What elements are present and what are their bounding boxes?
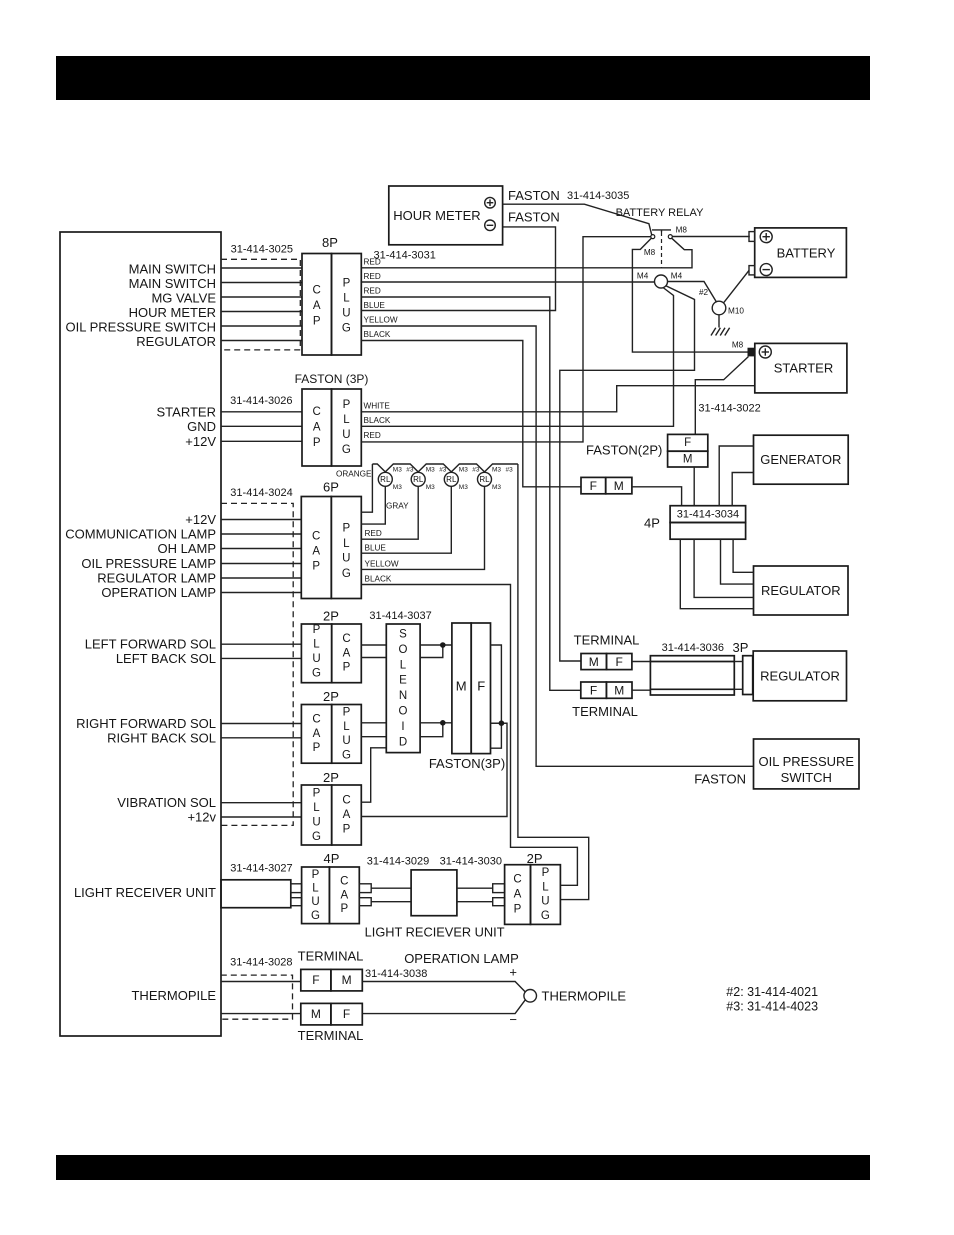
regulator box lower xyxy=(753,651,846,701)
svg-text:P: P xyxy=(313,742,321,754)
svg-text:G: G xyxy=(541,910,550,922)
wires 2P no.1 to solenoid xyxy=(361,644,386,646)
svg-text:MAIN SWITCH: MAIN SWITCH xyxy=(129,262,216,277)
svg-text:BLUE: BLUE xyxy=(364,301,386,310)
connector F M pair (from 8P black) xyxy=(581,477,632,493)
svg-text:A: A xyxy=(343,647,351,659)
svg-text:L: L xyxy=(343,538,350,550)
svg-text:M3: M3 xyxy=(492,467,501,474)
svg-text:I: I xyxy=(401,721,404,733)
wire starter M8 to faston 2P xyxy=(695,357,748,435)
svg-text:BLUE: BLUE xyxy=(365,544,387,553)
lamp RL1 xyxy=(378,472,392,486)
svg-text:M3: M3 xyxy=(393,467,402,474)
wires 4P cap to middle unit xyxy=(371,887,411,889)
svg-text:C: C xyxy=(342,633,350,645)
regulator box upper xyxy=(754,566,849,615)
svg-text:BLACK: BLACK xyxy=(364,416,391,425)
svg-text:M3: M3 xyxy=(492,484,501,491)
wires 2P no.1 left pins xyxy=(221,643,301,645)
svg-text:RL: RL xyxy=(479,475,490,484)
svg-text:LEFT FORWARD SOL: LEFT FORWARD SOL xyxy=(85,637,216,652)
svg-text:31-414-3036: 31-414-3036 xyxy=(662,642,724,654)
wire BLACK 8P to faston 2P pair xyxy=(361,341,581,487)
svg-text:#3: #3 xyxy=(406,467,414,474)
wire RED 6P to lamp RL2 xyxy=(361,487,418,540)
connector M F thermopile lower xyxy=(301,1003,363,1025)
svg-text:LIGHT RECIEVER UNIT: LIGHT RECIEVER UNIT xyxy=(365,925,505,940)
wires 2P no.2 to solenoid xyxy=(361,722,386,724)
connector F M thermopile upper xyxy=(301,969,363,991)
svg-text:31-414-3034: 31-414-3034 xyxy=(677,508,739,520)
svg-text:BLACK: BLACK xyxy=(365,574,392,583)
svg-text:GENERATOR: GENERATOR xyxy=(760,452,841,467)
wire hour meter plus to relay contact xyxy=(503,204,652,235)
connector 2P no.1 PLUG/CAP xyxy=(301,624,361,683)
wires 3P left pins xyxy=(221,412,302,442)
svg-text:FASTON: FASTON xyxy=(508,209,560,224)
svg-text:#3: #3 xyxy=(506,467,514,474)
cap stub lower xyxy=(359,898,371,906)
svg-text:31-414-3037: 31-414-3037 xyxy=(369,610,431,622)
svg-text:BATTERY: BATTERY xyxy=(777,245,836,260)
wire GRAY 6P to lamp RL1 xyxy=(361,487,385,525)
svg-text:M3: M3 xyxy=(393,484,402,491)
wire 4P pin3 to regulator xyxy=(694,539,753,597)
lamp pin labels M3/#3 xyxy=(393,467,513,492)
svg-text:4P: 4P xyxy=(644,516,660,531)
svg-text:F: F xyxy=(684,437,691,449)
svg-text:OIL PRESSURE LAMP: OIL PRESSURE LAMP xyxy=(81,556,216,571)
svg-text:M3: M3 xyxy=(426,467,435,474)
svg-text:N: N xyxy=(399,690,407,702)
svg-text:FASTON: FASTON xyxy=(508,188,560,203)
connector M F terminal upper xyxy=(581,654,632,670)
svg-text:U: U xyxy=(342,553,350,565)
svg-text:L: L xyxy=(542,881,549,893)
svg-text:LEFT BACK SOL: LEFT BACK SOL xyxy=(116,651,216,666)
harness main box (left) xyxy=(60,232,221,1036)
svg-text:G: G xyxy=(312,667,321,679)
svg-text:REGULATOR: REGULATOR xyxy=(136,334,216,349)
wire solenoid to M/F faston upper xyxy=(420,644,452,646)
bottom footer bar xyxy=(56,1155,870,1180)
svg-text:M3: M3 xyxy=(459,484,468,491)
wire RED3 8P to lower terminal F/M xyxy=(361,297,581,690)
wire battery minus to M10 xyxy=(723,270,749,303)
wire M/F faston right pin2 xyxy=(491,722,508,724)
svg-text:31-414-3029: 31-414-3029 xyxy=(367,856,429,868)
svg-text:C: C xyxy=(340,875,348,887)
hour meter plus terminal xyxy=(485,197,496,208)
svg-text:G: G xyxy=(312,831,321,843)
svg-text:A: A xyxy=(312,546,320,558)
svg-text:OPERATION LAMP: OPERATION LAMP xyxy=(101,585,216,600)
svg-text:P: P xyxy=(312,869,320,881)
wire BLUE 8P to hour meter minus xyxy=(361,227,555,311)
svg-text:A: A xyxy=(313,728,321,740)
connector 4P (31-414-3034) xyxy=(670,506,746,540)
battery relay armature dashed xyxy=(661,232,663,268)
svg-text:GRAY: GRAY xyxy=(386,501,409,510)
svg-text:P: P xyxy=(343,706,351,718)
svg-text:HOUR METER: HOUR METER xyxy=(129,305,216,320)
svg-text:TERMINAL: TERMINAL xyxy=(298,949,364,964)
svg-text:P: P xyxy=(542,867,550,879)
svg-text:+: + xyxy=(509,965,517,980)
wire generator pin2 to 4P xyxy=(732,473,753,506)
svg-text:C: C xyxy=(513,874,521,886)
wire YELLOW 8P to oil pressure switch xyxy=(361,326,753,766)
svg-text:L: L xyxy=(343,293,350,305)
svg-text:−: − xyxy=(509,1012,517,1027)
wire thermopile minus to lamp xyxy=(362,999,525,1013)
svg-text:M: M xyxy=(311,1007,321,1021)
svg-text:G: G xyxy=(311,910,320,922)
svg-text:31-414-3026: 31-414-3026 xyxy=(230,395,292,407)
svg-text:U: U xyxy=(311,896,319,908)
wire solenoid pin2 loop xyxy=(420,645,443,658)
wire M4 branch to terminal M/F xyxy=(560,286,695,661)
svg-text:P: P xyxy=(343,399,351,411)
wire 4P pin4 to regulator xyxy=(680,539,753,609)
svg-text:F: F xyxy=(343,1007,350,1021)
svg-text:F: F xyxy=(312,973,319,987)
svg-text:M3: M3 xyxy=(459,467,468,474)
svg-text:TERMINAL: TERMINAL xyxy=(572,704,638,719)
thermopile lamp circle xyxy=(524,990,537,1003)
svg-text:M10: M10 xyxy=(728,307,744,316)
svg-text:U: U xyxy=(541,896,549,908)
top title bar xyxy=(56,56,870,100)
svg-text:M4: M4 xyxy=(637,272,649,281)
svg-text:#3: 31-414-4023: #3: 31-414-4023 xyxy=(726,999,818,1013)
wire terminal lower to 3P connector xyxy=(632,689,650,691)
svg-text:A: A xyxy=(313,300,321,312)
connector 2P no.2 CAP/PLUG xyxy=(301,705,361,764)
svg-text:C: C xyxy=(313,406,321,418)
svg-text:L: L xyxy=(343,721,350,733)
svg-text:RL: RL xyxy=(380,475,391,484)
battery plus tab xyxy=(749,232,755,242)
svg-text:YELLOW: YELLOW xyxy=(365,559,399,568)
wire 4P pin2 to regulator xyxy=(721,539,754,584)
svg-text:O: O xyxy=(399,644,408,656)
svg-text:VIBRATION SOL: VIBRATION SOL xyxy=(117,795,216,810)
svg-text:M8: M8 xyxy=(732,341,744,350)
svg-text:F: F xyxy=(616,655,623,669)
svg-text:3P: 3P xyxy=(733,640,749,655)
svg-text:G: G xyxy=(342,750,351,762)
svg-text:P: P xyxy=(312,561,320,573)
svg-text:L: L xyxy=(313,802,320,814)
svg-text:OIL PRESSURE SWITCH: OIL PRESSURE SWITCH xyxy=(66,320,216,335)
dashed harness boundary thermopile xyxy=(221,975,293,1019)
svg-text:FASTON: FASTON xyxy=(694,772,746,787)
svg-text:P: P xyxy=(342,522,350,534)
svg-text:4P: 4P xyxy=(324,851,340,866)
connector 6P CAP/PLUG xyxy=(301,497,361,599)
svg-text:RIGHT FORWARD SOL: RIGHT FORWARD SOL xyxy=(76,716,216,731)
lamp RL3 xyxy=(444,472,458,486)
lamp bus wire down to light receiver plug xyxy=(518,464,589,900)
svg-text:U: U xyxy=(312,816,320,828)
wire M/F faston right pin1 down xyxy=(491,645,502,748)
svg-text:G: G xyxy=(342,444,351,456)
svg-text:L: L xyxy=(343,414,350,426)
wires middle unit to 2P cap xyxy=(457,887,493,889)
svg-text:MAIN SWITCH: MAIN SWITCH xyxy=(129,276,216,291)
lamp RL2 xyxy=(411,472,425,486)
junction dot faston right xyxy=(499,720,505,726)
svg-text:GND: GND xyxy=(187,419,216,434)
svg-text:MG VALVE: MG VALVE xyxy=(151,291,216,306)
svg-text:G: G xyxy=(342,568,351,580)
svg-text:#2: 31-414-4021: #2: 31-414-4021 xyxy=(726,985,818,999)
svg-text:U: U xyxy=(342,308,350,320)
svg-text:8P: 8P xyxy=(322,235,338,250)
lamp bus zigzag wire xyxy=(372,464,518,472)
svg-text:TERMINAL: TERMINAL xyxy=(298,1028,364,1043)
wire RED 3P to battery relay contact xyxy=(361,237,650,442)
wire BLUE 6P to lamp RL3 xyxy=(361,487,451,554)
svg-text:2P: 2P xyxy=(527,851,543,866)
battery minus tab xyxy=(749,266,755,275)
svg-text:STARTER: STARTER xyxy=(774,361,833,376)
svg-text:RED: RED xyxy=(364,431,381,440)
lamp RL4 xyxy=(478,472,492,486)
dashed harness boundary 6P/2P group xyxy=(221,503,293,825)
battery relay contact bar xyxy=(652,230,671,232)
svg-text:U: U xyxy=(342,429,350,441)
junction dot upper xyxy=(440,642,446,648)
connector F M terminal lower xyxy=(581,682,632,698)
cap stub upper xyxy=(359,884,371,893)
connector 3P CAP/PLUG xyxy=(302,389,361,466)
svg-text:F: F xyxy=(590,479,597,493)
svg-text:M8: M8 xyxy=(644,248,656,257)
wire 2P no.3 cap to solenoid bottom pin xyxy=(362,748,387,802)
svg-text:#3: #3 xyxy=(439,467,447,474)
battery box xyxy=(755,228,847,278)
svg-text:2P: 2P xyxy=(323,770,339,785)
wire faston 2P M to 4P connector xyxy=(693,467,695,506)
connector 2P no.3 PLUG/CAP xyxy=(301,785,361,845)
light receiver middle unit box xyxy=(411,870,457,916)
wire relay coil to starter M8 xyxy=(632,268,747,352)
svg-text:M: M xyxy=(614,479,624,493)
svg-text:+12V: +12V xyxy=(185,434,216,449)
svg-text:RED: RED xyxy=(364,287,381,296)
svg-text:REGULATOR: REGULATOR xyxy=(760,668,840,683)
svg-text:RED: RED xyxy=(364,272,381,281)
cable stub lower left xyxy=(291,898,302,906)
wires 8P left pins xyxy=(221,268,302,341)
battery relay coil body xyxy=(632,238,692,267)
wire M4 to M10 xyxy=(668,282,717,303)
svg-text:THERMOPILE: THERMOPILE xyxy=(131,988,216,1003)
connector 8P CAP/PLUG xyxy=(302,254,361,356)
svg-text:P: P xyxy=(343,662,351,674)
M10 stud circle xyxy=(712,301,726,315)
hour meter box xyxy=(389,186,503,245)
svg-text:2P: 2P xyxy=(323,608,339,623)
svg-text:#2: #2 xyxy=(699,288,709,297)
svg-text:A: A xyxy=(514,889,522,901)
wire generator pin1 to 4P xyxy=(719,446,753,506)
svg-text:M4: M4 xyxy=(671,272,683,281)
starter box xyxy=(755,343,847,393)
hour meter minus terminal xyxy=(485,220,496,231)
svg-text:A: A xyxy=(343,809,351,821)
svg-text:OH LAMP: OH LAMP xyxy=(157,541,216,556)
starter plus symbol xyxy=(759,346,771,358)
svg-text:RL: RL xyxy=(446,475,457,484)
wires 3P connector to tail xyxy=(734,661,742,663)
svg-text:C: C xyxy=(312,530,320,542)
svg-text:OPERATION LAMP: OPERATION LAMP xyxy=(404,951,519,966)
svg-text:P: P xyxy=(313,437,321,449)
svg-text:S: S xyxy=(399,629,407,641)
svg-text:RIGHT BACK SOL: RIGHT BACK SOL xyxy=(107,730,216,745)
connector 4P PLUG/CAP light receiver xyxy=(302,867,360,924)
generator box xyxy=(754,435,849,484)
2P stub lower xyxy=(493,898,505,906)
svg-text:M: M xyxy=(614,683,624,697)
wires 6P left pins xyxy=(221,520,301,593)
svg-text:O: O xyxy=(399,706,408,718)
svg-text:RL: RL xyxy=(413,475,424,484)
wire WHITE 3P to starter body xyxy=(361,386,755,412)
svg-text:P: P xyxy=(340,903,348,915)
svg-text:31-414-3030: 31-414-3030 xyxy=(440,856,502,868)
wire BLACK 3P to M4 switch branch xyxy=(361,288,673,427)
svg-text:RED: RED xyxy=(365,529,382,538)
wires 2P no.2 left pins xyxy=(221,723,301,725)
svg-text:6P: 6P xyxy=(323,480,339,495)
wire RED2 8P to M4 switch xyxy=(361,281,654,283)
svg-text:31-414-3025: 31-414-3025 xyxy=(231,244,293,256)
M4 switch circle xyxy=(655,275,668,288)
connector 3P regulator body xyxy=(650,656,734,695)
svg-text:M8: M8 xyxy=(676,226,688,235)
svg-text:F: F xyxy=(477,679,485,694)
battery relay right contact xyxy=(668,235,672,239)
wire terminal upper to 3P connector xyxy=(632,661,651,663)
wire solenoid pin4 loop xyxy=(420,723,443,737)
svg-text:C: C xyxy=(313,285,321,297)
wire thermopile plus to lamp xyxy=(362,982,525,993)
svg-text:M3: M3 xyxy=(426,484,435,491)
svg-text:F: F xyxy=(590,683,597,697)
oil pressure switch box xyxy=(754,739,860,789)
3P connector tail rect xyxy=(743,656,753,695)
svg-text:+12V: +12V xyxy=(185,512,216,527)
svg-text:C: C xyxy=(342,795,350,807)
svg-text:A: A xyxy=(313,422,321,434)
solenoid box xyxy=(386,624,420,753)
svg-text:STARTER: STARTER xyxy=(157,404,216,419)
svg-text:U: U xyxy=(342,735,350,747)
svg-text:M: M xyxy=(456,679,467,694)
svg-text:31-414-3038: 31-414-3038 xyxy=(365,968,427,980)
cable stub upper left xyxy=(291,884,302,893)
svg-text:BLACK: BLACK xyxy=(364,330,391,339)
svg-text:31-414-3028: 31-414-3028 xyxy=(230,957,292,969)
svg-text:31-414-3022: 31-414-3022 xyxy=(698,402,760,414)
svg-text:L: L xyxy=(400,659,407,671)
wire thermopile plus from harness xyxy=(221,981,301,983)
battery relay left contact xyxy=(651,235,655,239)
svg-text:BATTERY RELAY: BATTERY RELAY xyxy=(616,207,704,219)
svg-text:+12v: +12v xyxy=(187,810,216,825)
ground xyxy=(711,315,730,336)
svg-text:P: P xyxy=(343,824,351,836)
2P stub upper xyxy=(493,884,505,893)
wire F M pair to 4P connector xyxy=(632,487,682,506)
svg-text:31-414-3031: 31-414-3031 xyxy=(374,250,436,262)
wire relay right contact to battery plus xyxy=(672,236,750,238)
dashed harness boundary 8P xyxy=(221,259,300,350)
svg-text:2P: 2P xyxy=(323,689,339,704)
svg-text:COMMUNICATION LAMP: COMMUNICATION LAMP xyxy=(65,527,216,542)
svg-text:L: L xyxy=(313,639,320,651)
svg-text:31-414-3035: 31-414-3035 xyxy=(567,190,629,202)
svg-text:RED: RED xyxy=(364,258,381,267)
svg-text:P: P xyxy=(313,624,321,636)
wire solenoid to M/F faston lower xyxy=(420,722,452,724)
connector FASTON 2P F/M vertical xyxy=(668,434,708,467)
svg-text:FASTON (3P): FASTON (3P) xyxy=(295,372,369,386)
svg-text:TERMINAL: TERMINAL xyxy=(574,633,640,648)
connector M/F FASTON(3P) xyxy=(452,623,491,754)
svg-text:G: G xyxy=(342,323,351,335)
svg-text:M: M xyxy=(342,973,352,987)
svg-text:SWITCH: SWITCH xyxy=(781,770,832,785)
wire ORANGE 6P to lamp bus xyxy=(361,464,372,512)
svg-text:OIL PRESSURE: OIL PRESSURE xyxy=(758,754,854,769)
svg-text:31-414-3024: 31-414-3024 xyxy=(230,487,292,499)
svg-text:REGULATOR: REGULATOR xyxy=(761,583,841,598)
svg-text:ORANGE: ORANGE xyxy=(336,470,372,479)
wires 2P no.3 left pins xyxy=(221,802,301,804)
svg-text:FASTON(3P): FASTON(3P) xyxy=(429,756,505,771)
connector 2P CAP/PLUG light receiver xyxy=(505,865,561,925)
svg-text:THERMOPILE: THERMOPILE xyxy=(542,988,627,1003)
svg-text:E: E xyxy=(399,675,407,687)
svg-text:C: C xyxy=(312,714,320,726)
wire 2P no.3 cap to faston 3P junction xyxy=(362,723,508,816)
light receiver cable rect xyxy=(221,880,291,908)
wire 4P pin1 to regulator xyxy=(733,539,753,572)
wire RED1 8P to battery relay coil xyxy=(361,267,632,269)
svg-text:D: D xyxy=(399,736,407,748)
svg-text:WHITE: WHITE xyxy=(364,401,391,410)
wire YELLOW 6P to lamp RL4 xyxy=(361,487,484,570)
svg-text:REGULATOR LAMP: REGULATOR LAMP xyxy=(97,571,216,586)
junction dot lower xyxy=(440,720,446,726)
svg-text:LIGHT RECEIVER UNIT: LIGHT RECEIVER UNIT xyxy=(74,885,216,900)
svg-text:HOUR METER: HOUR METER xyxy=(393,208,480,223)
wire BLACK 6P to light receiver plug xyxy=(361,585,577,886)
svg-text:M: M xyxy=(589,655,599,669)
svg-text:FASTON(2P): FASTON(2P) xyxy=(586,443,662,458)
svg-text:L: L xyxy=(312,883,319,895)
svg-text:P: P xyxy=(343,278,351,290)
svg-text:M: M xyxy=(683,453,693,465)
svg-text:31-414-3027: 31-414-3027 xyxy=(230,863,292,875)
battery minus symbol xyxy=(760,264,772,276)
